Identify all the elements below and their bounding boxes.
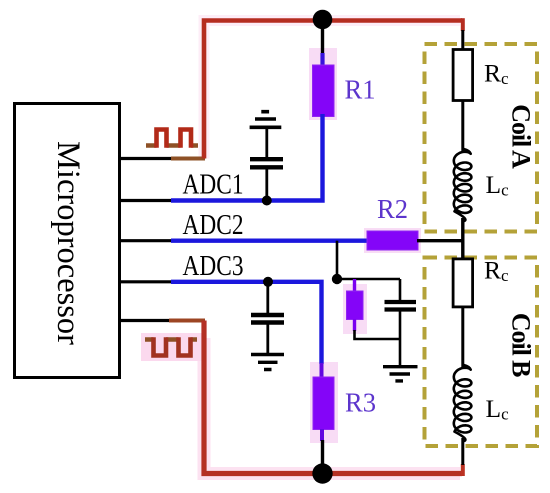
wire: R1 bottom blue to ADC1 junction xyxy=(266,114,323,201)
wire: dot to R1 black xyxy=(321,26,324,54)
pink halo bottom red wire xyxy=(204,338,460,474)
resistor R3 bottom lead purple xyxy=(320,429,324,441)
pink halo top red wire xyxy=(204,21,460,159)
svg-text:ADC3: ADC3 xyxy=(183,251,244,282)
resistor small (filter) top lead xyxy=(353,279,356,292)
resistor Rc B xyxy=(453,259,473,307)
svg-text:R3: R3 xyxy=(345,388,376,418)
ground (filter) xyxy=(383,367,418,381)
coil B dashed box xyxy=(425,258,538,447)
capacitor C3 top lead xyxy=(399,279,402,301)
svg-text:ADC2: ADC2 xyxy=(183,210,244,241)
resistor R3 body xyxy=(313,377,334,430)
svg-text:Coil B: Coil B xyxy=(506,313,535,377)
capacitor C1 stem upper xyxy=(265,127,268,158)
wire: Lc A to junction xyxy=(461,218,464,242)
svg-text:R1: R1 xyxy=(345,75,376,105)
capacitor C1 plates xyxy=(250,159,283,167)
wire: drive2 black stub xyxy=(119,319,170,322)
pink halo small resistor xyxy=(343,284,367,334)
capacitor C3 bottom lead to ground xyxy=(399,311,402,366)
pink halo R1 xyxy=(309,48,337,120)
node: top junction dot xyxy=(313,10,333,30)
node: ADC3 cap junction xyxy=(263,277,273,287)
square wave 1 baseline xyxy=(146,143,198,148)
wire: ADC3 blue to R3 xyxy=(171,282,322,364)
wire: ADC3 black xyxy=(119,280,172,283)
svg-text:R2: R2 xyxy=(377,194,408,224)
square wave 2 top segments xyxy=(145,337,197,342)
resistor small (filter) body xyxy=(347,291,364,320)
wire: ADC2 blue xyxy=(171,238,368,242)
wire: junction into Rc B xyxy=(461,239,464,260)
ground (C2) xyxy=(251,355,284,370)
capacitor C2 top lead xyxy=(266,282,269,314)
wire: ADC1 blue xyxy=(171,198,268,202)
wire: R3 to bottom dot xyxy=(321,440,324,468)
wire: black into Rc A xyxy=(461,30,464,51)
inductor Lc B xyxy=(454,365,472,441)
inductor Lc A xyxy=(454,149,472,221)
resistor R2 xyxy=(367,231,418,250)
wire: ADC1 black xyxy=(119,199,172,202)
node: filter junction dot xyxy=(332,274,342,284)
wire: red stub into coil B xyxy=(461,464,465,476)
microprocessor box xyxy=(15,104,120,378)
capacitor C2 plates xyxy=(251,315,284,323)
square wave 2 pulses xyxy=(154,337,191,355)
coil A dashed box xyxy=(425,44,538,232)
node: ADC1 cap junction xyxy=(262,196,272,206)
pink halo R2 xyxy=(364,228,421,253)
wire: red stub into coil A xyxy=(461,18,465,31)
wire: drive1 brown stub xyxy=(171,157,205,161)
node: bottom junction dot xyxy=(312,463,332,483)
resistor R3 top lead purple xyxy=(320,363,324,378)
wire: filter bottom L xyxy=(355,330,401,339)
wire: drive2 brown stub xyxy=(169,319,205,323)
capacitor C3 plates xyxy=(385,302,417,310)
resistor R1 xyxy=(313,65,335,117)
pink halo R3 xyxy=(310,362,338,443)
resistor Rc A xyxy=(453,50,473,101)
wire: ADC2 tap down xyxy=(336,241,339,279)
wire: drive1 black stub xyxy=(119,157,172,160)
svg-text:Microprocessor: Microprocessor xyxy=(50,141,86,345)
resistor small bottom lead xyxy=(353,319,356,331)
wire: drive1 red path xyxy=(204,21,462,159)
wire: Rc B to Lc B xyxy=(461,306,464,367)
pink halo bottom square wave xyxy=(141,333,203,361)
wire: ADC2 black xyxy=(119,239,172,242)
capacitor C2 bottom lead xyxy=(266,324,269,355)
svg-text:Coil A: Coil A xyxy=(507,104,536,169)
wire: Rc A to Lc A xyxy=(461,100,464,151)
svg-text:ADC1: ADC1 xyxy=(183,169,244,200)
wire: black from Lc B to bottom xyxy=(461,438,464,465)
wire: R2 to coils junction xyxy=(417,239,463,242)
wire: filter top horizontal xyxy=(337,278,400,281)
square wave 1 pulses xyxy=(157,130,192,148)
wire: drive2 red path xyxy=(204,321,462,474)
ground up-facing (C1) xyxy=(250,112,282,128)
capacitor C1 stem lower xyxy=(265,169,268,201)
wire: R1 top lead blue xyxy=(320,53,324,67)
